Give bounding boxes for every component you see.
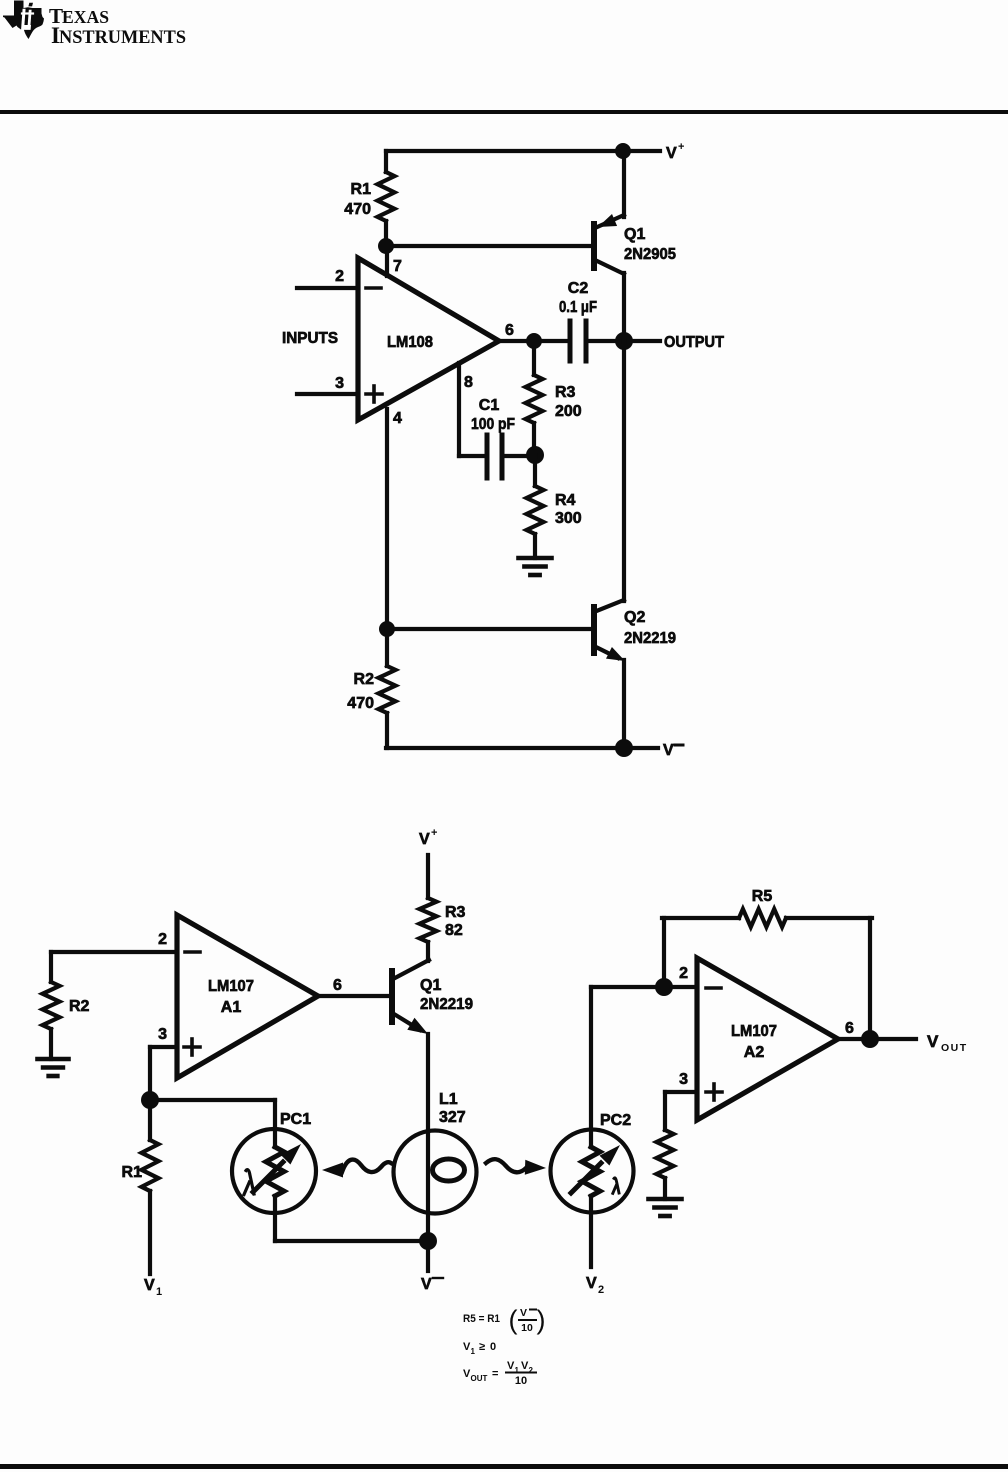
svg-text:V: V	[520, 1307, 527, 1319]
svg-text:8: 8	[464, 374, 473, 391]
svg-text:V: V	[421, 1276, 432, 1293]
svg-text:R2: R2	[69, 998, 90, 1015]
svg-text:2: 2	[679, 965, 688, 982]
svg-text:R3: R3	[555, 384, 576, 401]
svg-text:V: V	[419, 831, 430, 848]
svg-text:C1: C1	[479, 397, 500, 414]
svg-text:V: V	[927, 1032, 939, 1051]
svg-text:0.1 μF: 0.1 μF	[559, 299, 597, 316]
svg-text:OUTPUT: OUTPUT	[664, 334, 724, 351]
svg-text:+: +	[678, 141, 684, 153]
svg-text:Q1: Q1	[624, 226, 645, 243]
svg-text:R3: R3	[445, 904, 466, 921]
svg-text:LM107: LM107	[208, 978, 254, 995]
svg-text:1: 1	[471, 1347, 476, 1356]
svg-text:2N2219: 2N2219	[624, 630, 676, 647]
svg-text:10: 10	[521, 1322, 533, 1334]
svg-text:LM108: LM108	[387, 334, 433, 351]
svg-text:6: 6	[333, 977, 342, 994]
svg-text:200: 200	[555, 403, 582, 420]
svg-text:7: 7	[393, 258, 402, 275]
svg-text:V: V	[663, 742, 674, 759]
svg-text:R1: R1	[122, 1164, 143, 1181]
svg-text:300: 300	[555, 510, 582, 527]
svg-text:OUT: OUT	[471, 1374, 488, 1383]
svg-text:2: 2	[598, 1284, 604, 1296]
svg-text:A1: A1	[221, 999, 242, 1016]
svg-text:V: V	[666, 145, 677, 162]
svg-text:327: 327	[439, 1109, 466, 1126]
svg-text:6: 6	[505, 322, 514, 339]
svg-text:PC2: PC2	[600, 1112, 631, 1129]
svg-text:≥: ≥	[479, 1341, 485, 1353]
svg-text:6: 6	[845, 1020, 854, 1037]
svg-text:+: +	[431, 827, 437, 839]
svg-text:L1: L1	[439, 1091, 458, 1108]
svg-text:2: 2	[158, 931, 167, 948]
svg-text:OUT: OUT	[941, 1042, 968, 1054]
svg-text:R2: R2	[354, 671, 375, 688]
svg-text:2N2905: 2N2905	[624, 246, 676, 263]
svg-text:R4: R4	[555, 492, 576, 509]
svg-text:(: (	[509, 1305, 518, 1335]
svg-text:PC1: PC1	[280, 1111, 311, 1128]
svg-text:10: 10	[515, 1375, 527, 1387]
svg-text:2: 2	[335, 268, 344, 285]
svg-text:Q1: Q1	[420, 977, 441, 994]
svg-text:R1: R1	[351, 181, 372, 198]
svg-text:3: 3	[335, 375, 344, 392]
svg-text:470: 470	[347, 695, 374, 712]
svg-text:INPUTS: INPUTS	[282, 330, 338, 347]
svg-text:1: 1	[156, 1286, 162, 1298]
svg-text:R5 = R1: R5 = R1	[463, 1313, 500, 1325]
svg-text:C2: C2	[568, 280, 589, 297]
svg-text:Q2: Q2	[624, 609, 645, 626]
svg-text:A2: A2	[744, 1044, 765, 1061]
svg-text:2N2219: 2N2219	[420, 996, 473, 1013]
svg-text:470: 470	[344, 201, 371, 218]
svg-text:=: =	[492, 1368, 498, 1380]
svg-text:): )	[537, 1305, 546, 1335]
svg-text:100 pF: 100 pF	[471, 416, 515, 433]
svg-text:3: 3	[158, 1026, 167, 1043]
svg-text:R5: R5	[752, 888, 773, 905]
svg-text:0: 0	[490, 1341, 496, 1353]
svg-text:82: 82	[445, 922, 463, 939]
svg-text:1: 1	[515, 1366, 520, 1375]
svg-text:2: 2	[529, 1366, 534, 1375]
svg-text:3: 3	[679, 1071, 688, 1088]
svg-text:V: V	[586, 1275, 597, 1292]
svg-text:4: 4	[393, 410, 402, 427]
svg-text:LM107: LM107	[731, 1023, 777, 1040]
svg-text:V: V	[144, 1277, 155, 1294]
